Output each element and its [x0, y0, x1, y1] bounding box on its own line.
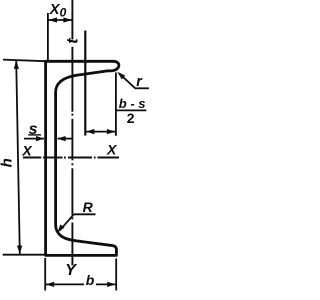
- svg-text:X: X: [21, 143, 33, 159]
- (b-s)/2 arrow right: [107, 129, 116, 134]
- svg-text:b - s: b - s: [119, 96, 146, 111]
- (b-s)/2 dimension line: [85, 131, 116, 133]
- X0 dimension line: [48, 19, 73, 21]
- svg-text:X: X: [106, 141, 118, 157]
- X-X axis line (dash-dot): [23, 157, 119, 159]
- h dimension arrow down: [17, 246, 22, 255]
- h top extension line: [3, 60, 45, 62]
- X0 arrow left: [48, 17, 57, 22]
- X0 arrow right: [63, 17, 72, 22]
- svg-text:2: 2: [127, 110, 135, 126]
- svg-text:Y: Y: [65, 262, 77, 279]
- b right extension line: [115, 259, 117, 291]
- (b-s)/2 arrow left: [86, 129, 95, 134]
- svg-text:R: R: [83, 199, 94, 215]
- svg-text:b: b: [86, 272, 95, 288]
- svg-text:h: h: [0, 158, 15, 167]
- h dimension arrow up: [14, 60, 19, 69]
- b right extension line: [115, 73, 117, 136]
- R leader: [74, 213, 96, 215]
- t measuring line: [84, 31, 86, 136]
- X0 left extension line: [47, 13, 49, 60]
- s dimension arrows: [24, 138, 44, 140]
- b left extension line: [44, 258, 46, 291]
- h bottom extension line: [3, 254, 45, 256]
- Y centre line (dash-dot): [71, 0, 73, 265]
- channel section outline: [46, 61, 119, 255]
- h dimension line: [16, 61, 20, 254]
- svg-text:0: 0: [60, 6, 67, 20]
- svg-text:t: t: [65, 38, 82, 44]
- b arrow right: [107, 282, 116, 287]
- b dimension line: [45, 283, 84, 285]
- b arrow left: [46, 282, 55, 287]
- r leader arrow: [117, 72, 125, 80]
